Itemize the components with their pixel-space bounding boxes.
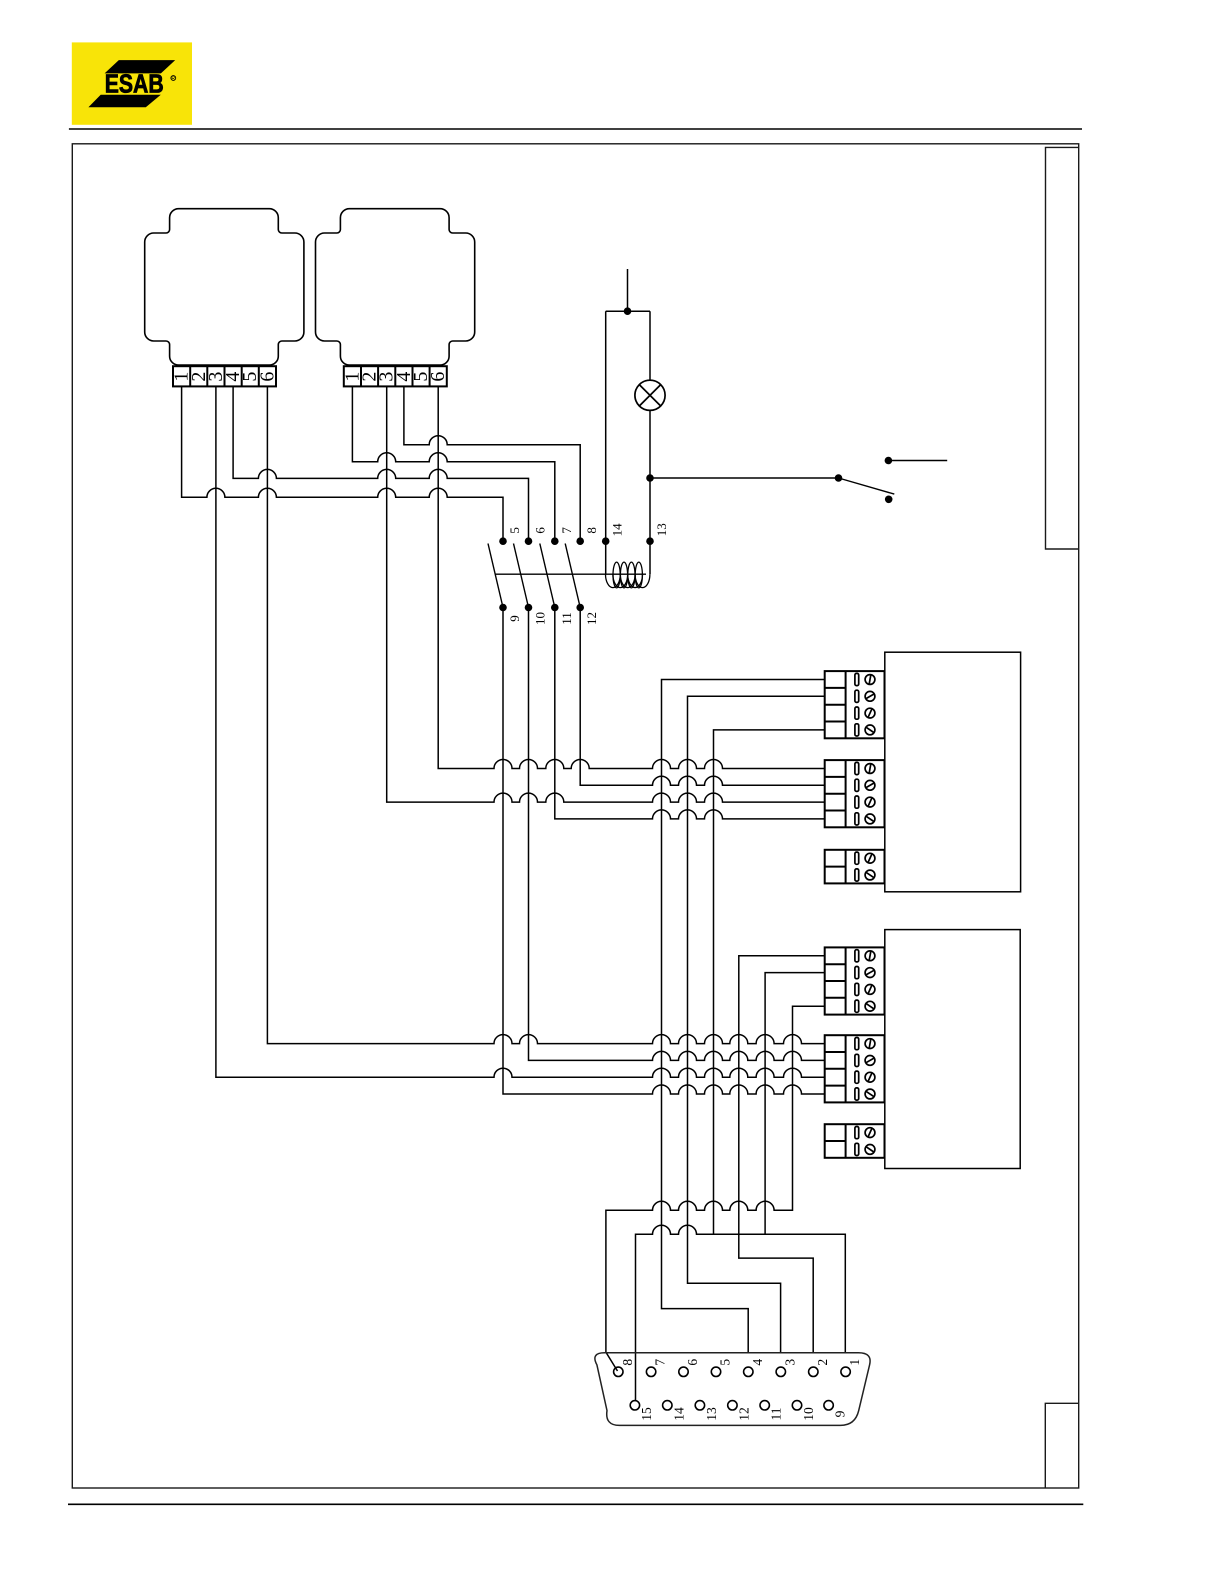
- wire X2.1 to contact 7: [352, 386, 554, 541]
- diagram frame border: [72, 144, 1078, 1488]
- coil terminal 13 dot: [646, 537, 654, 545]
- svg-text:R: R: [171, 76, 175, 82]
- svg-text:6: 6: [685, 1359, 700, 1366]
- switch S1 upper contact dot: [885, 457, 893, 465]
- svg-text:11: 11: [769, 1408, 784, 1421]
- wire X2.4 to contact 8: [404, 386, 580, 541]
- svg-text:8: 8: [584, 527, 599, 534]
- wire contact 12 to terminal 2TB2: [580, 608, 825, 786]
- svg-text:13: 13: [654, 523, 669, 536]
- svg-text:8: 8: [620, 1359, 635, 1366]
- svg-text:3: 3: [782, 1359, 797, 1366]
- terminal block 4TB (module B top): [825, 947, 885, 1014]
- wire contact 10 to terminal 5TB2: [529, 608, 825, 1061]
- terminal block 1TB (module A top): [825, 671, 885, 738]
- switch feed junction dot: [646, 474, 654, 482]
- wire X1.3 to terminal 5TB3: [216, 386, 825, 1077]
- terminal block 3TB (module A low): [825, 850, 885, 884]
- wire terminal 1TB2 to D-sub pin 3: [688, 696, 825, 1352]
- supply junction dot: [624, 307, 632, 315]
- contact 7 fixed dot: [551, 537, 559, 545]
- supply stub wire: [627, 269, 629, 311]
- relay body K2: [316, 209, 475, 365]
- svg-text:9: 9: [507, 615, 522, 622]
- wire terminal 4TB1 to D-sub pin 2: [739, 956, 825, 1352]
- relay body K1: [145, 209, 304, 365]
- wire X1.4 to contact 6: [233, 386, 528, 541]
- wire terminal 1TB1 to D-sub pin 4: [662, 680, 825, 1353]
- svg-text:12: 12: [584, 612, 599, 625]
- contact blade 5-9: [488, 544, 503, 608]
- svg-text:4: 4: [750, 1359, 765, 1366]
- contact 10 moving dot: [525, 604, 533, 612]
- svg-text:10: 10: [801, 1407, 816, 1421]
- svg-text:13: 13: [704, 1407, 719, 1421]
- wire junction to switch S1: [650, 477, 839, 479]
- svg-text:15: 15: [639, 1407, 654, 1421]
- D-sub connector outline: [595, 1353, 870, 1426]
- contact 12 moving dot: [576, 604, 584, 612]
- frame bottom-right column: [1045, 1403, 1078, 1487]
- wire contact 11 to terminal 2TB4: [555, 608, 825, 819]
- switch S1 lower contact dot: [885, 496, 893, 504]
- loop right wire (to coil 13): [649, 311, 651, 574]
- svg-text:6: 6: [533, 527, 548, 534]
- switch S1 blade: [839, 478, 895, 494]
- D-sub pins 9-15: [630, 1401, 847, 1421]
- svg-text:7: 7: [653, 1359, 668, 1366]
- svg-text:14: 14: [610, 523, 625, 537]
- terminal block 6TB (module B low): [825, 1124, 885, 1158]
- loop left wire (to coil 14): [605, 311, 607, 574]
- contact 9 moving dot: [499, 604, 507, 612]
- svg-text:5: 5: [718, 1359, 733, 1366]
- svg-text:1: 1: [847, 1359, 862, 1366]
- lamp H1: [635, 380, 665, 410]
- terminal block 5TB (module B mid): [825, 1035, 885, 1102]
- ESAB logo yellow panel: [72, 42, 192, 124]
- frame top-right column: [1046, 147, 1079, 549]
- wire X2.3 to terminal 2TB3: [387, 386, 825, 802]
- registered trademark symbol: [171, 76, 176, 82]
- terminal strip X2 pins 1-6: [341, 366, 449, 386]
- ESAB logo bottom bar: [88, 95, 160, 108]
- contact blade 7-11: [540, 544, 555, 608]
- relay coil K: [606, 562, 650, 588]
- contact 5 fixed dot: [499, 537, 507, 545]
- svg-text:6: 6: [427, 372, 449, 382]
- module box A: [885, 652, 1021, 892]
- wire X2.6 to terminal 2TB1: [438, 386, 825, 768]
- switch S1 output wire: [888, 460, 947, 462]
- wire X1.6 to terminal 5TB1: [267, 386, 824, 1043]
- contact blade 6-10: [514, 544, 529, 608]
- wire contact 9 to terminal 5TB4: [503, 608, 825, 1095]
- footer rule: [68, 1503, 1083, 1505]
- ESAB logo top bar: [105, 60, 176, 73]
- module box B: [885, 930, 1020, 1169]
- contact blade 8-12: [565, 544, 580, 608]
- terminal strip X1 pins 1-6: [171, 366, 279, 386]
- loop top wire: [606, 310, 650, 312]
- contact 8 fixed dot: [576, 537, 584, 545]
- contact linkage line: [495, 573, 646, 575]
- svg-text:10: 10: [533, 612, 548, 625]
- wire X1.1 to contact 5: [182, 386, 503, 541]
- svg-text:9: 9: [833, 1410, 848, 1417]
- svg-text:5: 5: [507, 527, 522, 534]
- wire terminal 1TB4 to D-sub pin 15 branch: [714, 730, 825, 1234]
- svg-text:11: 11: [559, 612, 574, 625]
- switch S1 pivot dot: [835, 474, 843, 482]
- svg-text:7: 7: [559, 527, 574, 534]
- contact 11 moving dot: [551, 604, 559, 612]
- D-sub pins 1-8: [614, 1359, 863, 1377]
- svg-text:2: 2: [815, 1359, 830, 1366]
- coil terminal 14 dot: [602, 537, 610, 545]
- wire terminal 4TB2 to D-sub pin 15/1 branch: [765, 973, 825, 1235]
- terminal block 2TB (module A mid): [825, 760, 885, 827]
- bus wire to D-sub pins 15 and 1: [636, 1225, 846, 1400]
- header rule: [69, 128, 1082, 130]
- svg-text:ESAB: ESAB: [105, 71, 164, 99]
- svg-text:14: 14: [671, 1407, 686, 1421]
- wire terminal 4TB4 to D-sub pin 8: [606, 1006, 825, 1371]
- svg-text:12: 12: [736, 1407, 751, 1421]
- svg-text:6: 6: [256, 372, 278, 382]
- contact 6 fixed dot: [525, 537, 533, 545]
